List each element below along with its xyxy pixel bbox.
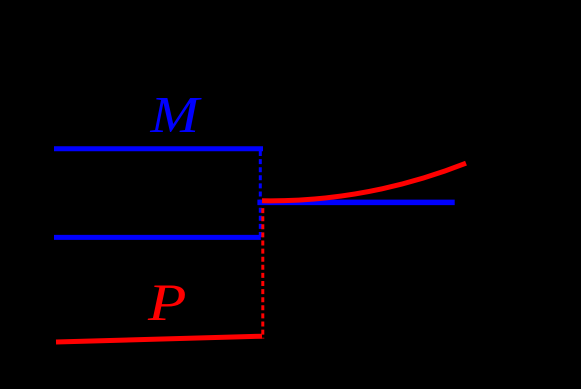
svg-text:M: M — [149, 87, 202, 144]
red dashed vertical — [261, 200, 264, 339]
blue line 1 (upper M level) — [54, 146, 263, 151]
blue dashed vertical — [259, 151, 262, 238]
red bottom line (P level) — [56, 336, 262, 342]
blue right line (M level after) — [257, 200, 454, 206]
blue line 2 (lower M level) — [54, 235, 261, 240]
svg-text:P: P — [147, 274, 187, 332]
red curve (P path after) — [262, 163, 466, 201]
